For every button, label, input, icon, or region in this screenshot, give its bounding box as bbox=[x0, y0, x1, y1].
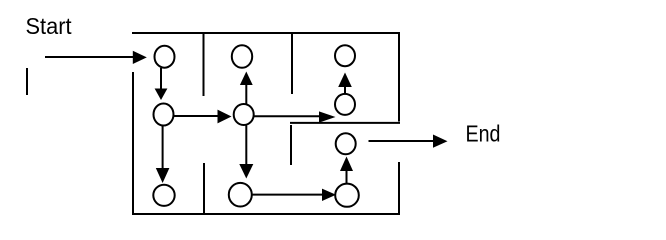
wall pocket horizontal bbox=[290, 122, 400, 124]
node E row2-middle bbox=[234, 104, 254, 125]
node F pocket-upper bbox=[335, 94, 355, 115]
wall bottom bbox=[132, 213, 400, 215]
wall right upper bbox=[398, 33, 400, 122]
node D row2-left bbox=[154, 104, 174, 126]
arrow G to End bbox=[369, 135, 448, 148]
node A row1-left bbox=[155, 46, 175, 68]
arrow F to C bbox=[338, 73, 352, 94]
node G exit bbox=[336, 133, 356, 154]
wall inner top-2 bbox=[291, 33, 293, 94]
wall inner middle bbox=[290, 125, 292, 165]
arrow J to G bbox=[340, 157, 353, 185]
node H row3-left bbox=[153, 185, 174, 206]
wall inner top-1 bbox=[203, 33, 205, 96]
wall inner bottom bbox=[203, 163, 205, 214]
svg-text:Start: Start bbox=[26, 13, 73, 39]
arrow E to I bbox=[239, 126, 253, 179]
wall top bbox=[132, 32, 400, 34]
arrow E to pocket bbox=[254, 111, 336, 122]
node J row3-right bbox=[335, 184, 359, 207]
text caret bbox=[26, 68, 28, 95]
wall right lower bbox=[398, 162, 400, 214]
arrow E to B bbox=[240, 72, 253, 105]
arrow I to J bbox=[253, 189, 337, 201]
arrow D to H bbox=[156, 126, 170, 183]
node I row3-middle bbox=[229, 183, 252, 207]
svg-text:End: End bbox=[466, 121, 501, 147]
wall left bbox=[132, 72, 134, 215]
node C row1-right bbox=[335, 45, 355, 66]
arrow A to D bbox=[155, 68, 168, 100]
start arrow bbox=[45, 51, 147, 64]
arrow D to E bbox=[174, 110, 232, 124]
node B row1-middle bbox=[232, 45, 252, 68]
